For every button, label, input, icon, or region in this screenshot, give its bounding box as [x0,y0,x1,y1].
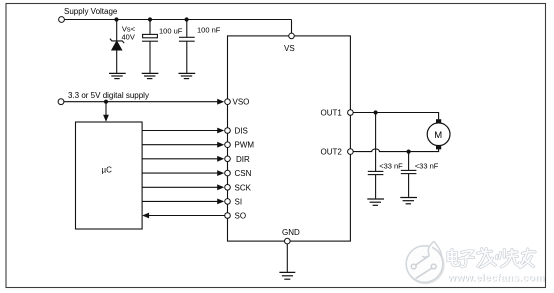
svg-text:VS: VS [284,44,295,53]
wire to uC [105,102,107,115]
svg-text:Supply Voltage: Supply Voltage [64,7,118,16]
ground (C1) [142,73,159,78]
ground (C2) [179,73,196,78]
svg-text:SCK: SCK [235,183,252,192]
motor M1 [427,119,450,149]
watermark logo [406,241,443,283]
ground (C3) [367,199,384,205]
capacitor C3 33nF [368,113,384,199]
wire DIR [142,158,217,160]
pin SO [225,213,231,219]
arrowhead DIR [217,156,224,162]
svg-text:DIR: DIR [236,155,250,164]
node digital-uC [104,100,108,104]
svg-text:<33 nF: <33 nF [379,161,403,170]
supply terminal [59,17,65,23]
arrowhead SI [217,199,224,205]
pin OUT1 [348,110,354,116]
wire VS drop [291,20,293,34]
wire CSN [142,172,217,174]
wire PWM [142,144,217,146]
svg-text:SO: SO [235,212,247,221]
arrowhead DIS [217,128,224,134]
watermark chinese text 电子发烧友 [448,249,535,268]
wire SO [149,215,225,217]
wire motor to OUT2 (with hop) [353,149,438,152]
pin VS [289,33,295,39]
ground (C4) [400,198,417,204]
IC U1 (driver) [228,36,351,241]
svg-text:100 uF: 100 uF [159,26,183,35]
svg-text:PWM: PWM [235,141,255,150]
node supply-zener [114,17,118,21]
digital supply terminal [58,99,64,105]
node OUT2-C4 [407,150,411,154]
svg-text:OUT2: OUT2 [321,148,343,157]
svg-text:SI: SI [235,197,243,206]
wire SCK [142,186,217,188]
svg-text:www.elecfans.com: www.elecfans.com [447,272,545,284]
pin VSO [225,99,231,105]
svg-text:OUT1: OUT1 [321,109,343,118]
pin PWM [225,142,231,148]
svg-text:DIS: DIS [235,127,248,136]
arrowhead into VSO [217,99,224,105]
arrowhead SCK [217,184,224,190]
svg-text:40V: 40V [122,33,135,42]
wire SI [142,200,217,202]
wire GND [286,244,288,272]
pin SCK [225,185,231,191]
arrowhead CSN [217,170,224,176]
microcontroller U2 [76,122,143,229]
wire OUT1 to motor [353,113,438,120]
pin OUT2 [348,149,354,155]
arrowhead into uC [103,115,109,122]
arrowhead SO [142,213,149,219]
zener diode D1 [110,20,124,73]
svg-text:GND: GND [282,228,300,237]
capacitor C2 100nF [179,20,195,73]
node supply-C1 [148,17,152,21]
svg-text:M: M [434,130,442,141]
svg-text:3.3 or 5V digital supply: 3.3 or 5V digital supply [68,91,149,100]
pin CSN [225,170,231,176]
pin DIR [225,156,231,162]
wire digital supply [64,101,218,103]
svg-text:µC: µC [102,166,113,175]
ground (zener) [109,73,126,78]
svg-text:100 nF: 100 nF [197,25,221,34]
wire supply rail [64,19,291,21]
pin GND [285,238,291,244]
svg-text:CSN: CSN [235,169,252,178]
node supply-C2 [185,17,189,21]
capacitor C1 100uF [142,20,158,73]
svg-text:<33 nF: <33 nF [415,161,439,170]
pin SI [225,199,231,205]
pin DIS [225,128,231,134]
wire DIS [142,130,217,132]
ground (GND) [279,272,295,279]
arrowhead PWM [217,142,224,148]
capacitor C4 33nF [401,152,417,197]
svg-text:VSO: VSO [233,98,250,107]
node OUT1-C3 [374,110,378,114]
